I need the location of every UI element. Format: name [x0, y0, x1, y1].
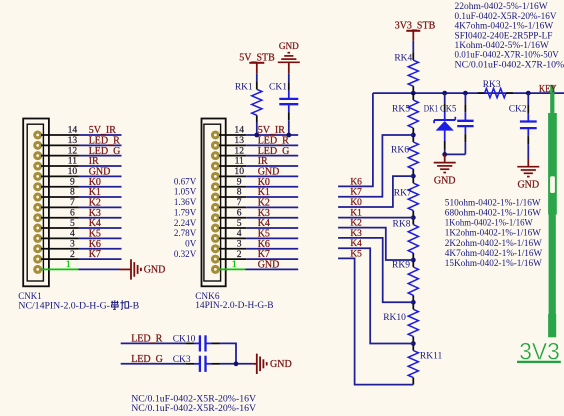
svg-text:-B: -B	[129, 300, 139, 311]
svg-text:K4: K4	[350, 239, 362, 249]
svg-text:GND: GND	[270, 359, 292, 370]
resistor RK9	[412, 260, 414, 267]
svg-text:0.67V: 0.67V	[174, 176, 197, 186]
CNK1 pin 11 wire, net IR	[41, 165, 79, 167]
CNK6 pin 12 wire, net LED_G	[219, 155, 246, 157]
svg-text:RK1: RK1	[235, 82, 253, 92]
junction (ladder node 6)	[411, 341, 416, 346]
3V3 bus bar (green)	[550, 85, 554, 334]
CNK6 pin 13 wire, net LED_R	[219, 144, 246, 146]
CNK1 pin 7 wire, net K2	[41, 206, 79, 208]
CNK6 pin 5 wire, net K4	[219, 227, 246, 229]
svg-text:K7: K7	[258, 249, 270, 260]
svg-text:K4: K4	[89, 218, 101, 229]
connector CNK1 body	[23, 119, 49, 287]
svg-text:KEY: KEY	[539, 84, 557, 95]
svg-text:5V_STB: 5V_STB	[239, 52, 275, 63]
CNK6 pin 8 wire, net K1	[219, 196, 246, 198]
connector CNK1 pads	[33, 131, 42, 140]
svg-text:K0: K0	[350, 198, 362, 208]
svg-text:RK3: RK3	[483, 80, 501, 90]
CNK6 pin 10 wire, net GND	[219, 175, 246, 177]
svg-text:1: 1	[66, 259, 71, 270]
svg-text:1.05V: 1.05V	[174, 187, 197, 197]
svg-text:4: 4	[237, 228, 242, 239]
svg-text:13: 13	[234, 135, 244, 146]
svg-text:GND: GND	[434, 176, 456, 187]
svg-text:RK6: RK6	[391, 146, 409, 156]
svg-text:1.79V: 1.79V	[174, 207, 197, 217]
junction (RK1 to 5V_IR)	[254, 133, 259, 138]
resistor RK6	[412, 135, 414, 142]
svg-text:2.24V: 2.24V	[174, 218, 197, 228]
CNK1 pin 10 wire, net GND	[41, 175, 79, 177]
junction (RK4/RK5)	[411, 91, 416, 96]
CNK1 pin 9 wire, net K0	[41, 186, 79, 188]
svg-text:K7: K7	[89, 249, 101, 260]
svg-text:3V3_STB: 3V3_STB	[395, 20, 436, 31]
resistor RK3	[478, 92, 485, 94]
wire K7 tap	[338, 135, 413, 197]
wire (CK10 to junction)	[206, 342, 212, 344]
wire (CK3 to ground)	[206, 363, 212, 365]
CNK6 pin 7 wire, net K2	[219, 206, 246, 208]
svg-text:K1: K1	[350, 209, 362, 219]
resistor RK4	[412, 52, 414, 60]
junction (CK1 to 5V_IR)	[286, 133, 291, 138]
junction (ladder node 2)	[411, 174, 416, 179]
svg-text:CK2: CK2	[509, 105, 527, 115]
junction (ladder node 1)	[411, 133, 416, 138]
svg-text:K6: K6	[350, 177, 362, 187]
junction (DK1/CK5)	[442, 152, 447, 157]
svg-text:8: 8	[70, 187, 75, 198]
CNK1 pin 5 wire, net K4	[41, 227, 79, 229]
resistor RK11	[412, 344, 414, 351]
svg-text:RK11: RK11	[420, 352, 443, 362]
svg-text:K4: K4	[258, 218, 270, 229]
wire	[256, 122, 258, 135]
svg-text:CK10: CK10	[173, 334, 196, 344]
wire (CK5 bottom)	[445, 153, 466, 155]
ground GND (CNK1 pin 1)	[120, 268, 132, 270]
svg-text:NC/14PIN-2.0-D-H-G-: NC/14PIN-2.0-D-H-G-	[18, 300, 110, 311]
svg-text:12: 12	[68, 145, 78, 156]
svg-text:15Kohm-0402-1%-1/16W: 15Kohm-0402-1%-1/16W	[445, 258, 543, 269]
resistor RK5	[412, 93, 414, 100]
CNK1 pin 14 wire, net 5V_IR	[41, 134, 79, 136]
svg-text:GND: GND	[144, 265, 166, 276]
junction (ladder node 5)	[411, 300, 416, 305]
wire	[412, 41, 414, 52]
svg-text:GND: GND	[517, 180, 539, 191]
svg-text:K3: K3	[350, 229, 362, 239]
wire K1 tap	[338, 217, 413, 219]
CNK6 pin 4 wire, net K5	[219, 237, 246, 239]
CNK6 pin 11 wire, net IR	[219, 165, 246, 167]
svg-text:RK7: RK7	[394, 189, 412, 199]
CNK1 pin 8 wire, net K1	[41, 196, 79, 198]
svg-text:RK8: RK8	[393, 219, 411, 229]
svg-text:RK5: RK5	[392, 105, 410, 115]
wire K5 tap	[338, 258, 413, 384]
svg-text:GND: GND	[279, 41, 299, 51]
svg-text:NC/0.01uF-0402-X7R-10%-50V: NC/0.01uF-0402-X7R-10%-50V	[455, 59, 564, 70]
svg-text:K3: K3	[258, 208, 270, 219]
CNK6 pin 2 wire, net K7	[219, 258, 246, 260]
junction (LED caps)	[234, 361, 239, 366]
svg-text:K7: K7	[350, 188, 362, 198]
wire KEY (horizontal)	[373, 92, 564, 94]
svg-text:CK1: CK1	[269, 82, 287, 92]
wire	[256, 74, 258, 82]
wire K3 tap	[338, 238, 413, 302]
connector CNK6 pads	[211, 131, 220, 140]
connector CNK6 body	[202, 119, 226, 287]
wire K6 tap	[338, 93, 373, 186]
svg-text:2.78V: 2.78V	[174, 228, 197, 238]
capacitor CK2	[527, 93, 529, 105]
CNK1 pin 3 wire, net K6	[41, 248, 79, 250]
svg-text:CK3: CK3	[173, 355, 191, 365]
svg-text:8: 8	[237, 187, 242, 198]
ground GND (LED caps)	[253, 363, 257, 365]
svg-text:2: 2	[237, 249, 242, 260]
diode DK1	[444, 93, 446, 104]
svg-text:LED_R: LED_R	[131, 333, 162, 344]
svg-text:1: 1	[232, 259, 237, 270]
CNK1 pin 2 wire, net K7	[41, 258, 79, 260]
svg-text:RK9: RK9	[392, 260, 410, 270]
wire LED_G	[121, 363, 186, 365]
svg-text:RK10: RK10	[383, 313, 406, 323]
CNK6 pin 1 wire, net GND	[219, 268, 245, 270]
junction (ladder node 4)	[411, 258, 416, 263]
svg-text:NC/0.1uF-0402-X5R-20%-16V: NC/0.1uF-0402-X5R-20%-16V	[131, 403, 256, 414]
junction (CK2)	[526, 91, 531, 96]
capacitor CK5	[464, 93, 466, 104]
wire LED_R	[121, 342, 186, 344]
CNK6 pin 14 wire, net 5V_IR	[219, 134, 246, 136]
svg-text:DK1: DK1	[424, 105, 439, 115]
svg-text:0.32V: 0.32V	[174, 249, 197, 259]
svg-text:K5: K5	[350, 249, 362, 259]
wire K0 tap	[338, 176, 413, 207]
svg-text:0V: 0V	[185, 238, 197, 248]
resistor RK7	[412, 176, 414, 183]
svg-text:RK4: RK4	[394, 54, 412, 64]
svg-text:5V_IR: 5V_IR	[258, 125, 286, 136]
CNK1 pin 6 wire, net K3	[41, 217, 79, 219]
svg-text:2: 2	[70, 249, 75, 260]
ground GND (DK1/CK5)	[444, 154, 446, 162]
svg-text:12: 12	[234, 145, 244, 156]
svg-text:K3: K3	[89, 208, 101, 219]
svg-text:CK5: CK5	[440, 105, 457, 115]
CNK6 pin 6 wire, net K3	[219, 217, 246, 219]
junction (CK5)	[463, 91, 468, 96]
resistor RK1	[256, 82, 258, 89]
svg-text:14PIN-2.0-D-H-G-B: 14PIN-2.0-D-H-G-B	[195, 301, 273, 311]
resistor RK8	[412, 218, 414, 225]
junction (ladder node 3)	[411, 215, 416, 220]
CNK1 pin 4 wire, net K5	[41, 237, 79, 239]
CNK6 pin 3 wire, net K6	[219, 248, 246, 250]
ground GND (CK2)	[527, 159, 529, 167]
wire K2 tap	[338, 228, 413, 260]
CNK1 pin 13 wire, net LED_R	[41, 144, 79, 146]
resistor RK10	[412, 302, 414, 309]
svg-text:1.36V: 1.36V	[174, 197, 197, 207]
svg-text:GND: GND	[258, 166, 280, 177]
CNK1 pin 1 wire	[41, 268, 79, 270]
svg-text:K2: K2	[350, 219, 362, 229]
CNK1 pin 12 wire, net LED_G	[41, 155, 79, 157]
svg-text:LED_G: LED_G	[131, 354, 163, 365]
capacitor CK1	[288, 74, 290, 83]
svg-text:4: 4	[70, 228, 75, 239]
wire K4 tap	[338, 248, 413, 343]
junction (DK1)	[442, 91, 447, 96]
svg-text:GND: GND	[258, 260, 280, 271]
CNK6 pin 9 wire, net K0	[219, 186, 246, 188]
svg-text:13: 13	[68, 135, 78, 146]
svg-text:5V_IR: 5V_IR	[89, 125, 117, 136]
svg-text:GND: GND	[89, 166, 111, 177]
